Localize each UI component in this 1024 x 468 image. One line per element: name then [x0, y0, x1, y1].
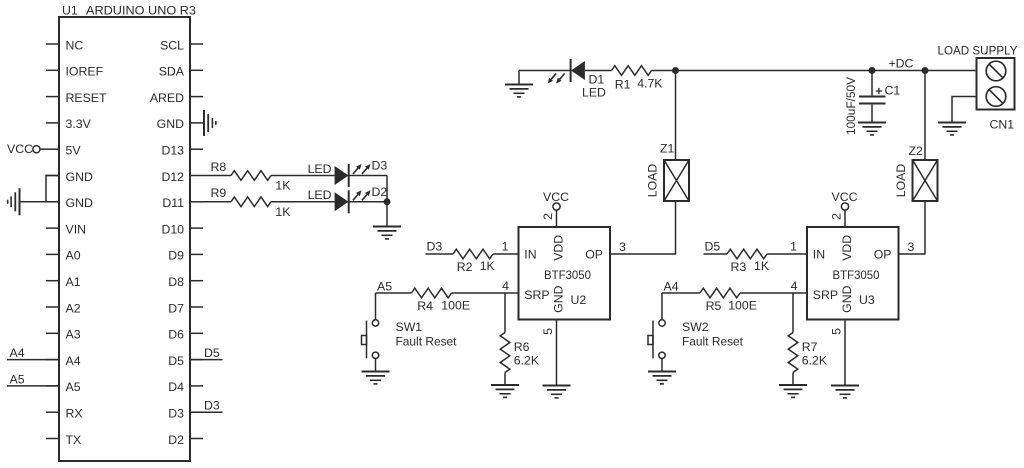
wire D3 to R2: [426, 253, 454, 255]
U1 left pin stub A1: [46, 280, 59, 282]
svg-text:D3: D3: [204, 399, 220, 413]
U1 right pin stub ARED: [190, 96, 203, 98]
svg-text:D2: D2: [372, 185, 388, 199]
svg-text:A2: A2: [66, 301, 81, 315]
U1 left pin stub NC: [46, 43, 59, 45]
svg-text:D1: D1: [589, 73, 605, 87]
U1 right pin stub D13: [190, 148, 203, 150]
svg-text:GND: GND: [157, 117, 184, 131]
resistor R8: [231, 171, 271, 181]
svg-text:BTF3050: BTF3050: [833, 268, 880, 282]
U1 left pin stub VIN: [46, 227, 59, 229]
svg-text:2: 2: [541, 213, 555, 220]
load Z2 box: [913, 160, 938, 201]
U1 right pin stub D8: [190, 280, 203, 282]
svg-text:1K: 1K: [754, 259, 770, 273]
svg-text:LOAD SUPPLY: LOAD SUPPLY: [938, 44, 1018, 58]
wire R1 to +DC rail: [652, 70, 977, 72]
wire R6 to ground: [504, 373, 506, 386]
svg-text:C1: C1: [885, 84, 901, 98]
resistor R5: [700, 288, 740, 298]
svg-text:R1: R1: [615, 77, 631, 91]
op-amp U3 BTF3050 body: [807, 227, 899, 320]
svg-text:Fault Reset: Fault Reset: [682, 335, 744, 349]
svg-text:IN: IN: [813, 247, 825, 261]
svg-text:D11: D11: [162, 196, 184, 210]
ground under CN1: [938, 123, 966, 135]
U1 right pin stub D5: [190, 359, 203, 361]
svg-text:SDA: SDA: [159, 65, 185, 79]
svg-text:NC: NC: [66, 38, 84, 52]
svg-text:R4: R4: [417, 299, 433, 313]
resistor R4: [412, 288, 452, 298]
svg-text:A4: A4: [664, 279, 679, 293]
load Z1 box: [664, 160, 689, 201]
svg-text:100uF/50V: 100uF/50V: [844, 76, 858, 135]
junction dot Z2 tap: [922, 67, 929, 74]
U1 right pin stub D6: [190, 332, 203, 334]
wire A4 to R5: [662, 292, 700, 294]
svg-text:R2: R2: [457, 260, 473, 274]
svg-text:SRP: SRP: [524, 288, 549, 302]
wire R9 to D2: [271, 201, 335, 203]
wire D3 cathode: [349, 175, 387, 177]
svg-text:D8: D8: [168, 275, 184, 289]
svg-text:4: 4: [502, 279, 509, 293]
U1 right pin stub D9: [190, 253, 203, 255]
wire SW2 to ground: [661, 359, 663, 372]
U3 pin 2 VDD stub: [844, 210, 846, 227]
svg-text:3.3V: 3.3V: [66, 117, 92, 131]
svg-text:3: 3: [619, 240, 626, 254]
svg-text:OP: OP: [874, 247, 892, 261]
svg-text:A1: A1: [66, 275, 81, 289]
U2 pin 5 GND wire: [556, 320, 558, 386]
junction dot Z1 tap: [672, 67, 679, 74]
U1 right pin stub D12: [190, 175, 203, 177]
svg-text:VDD: VDD: [551, 235, 565, 261]
capacitor C1 plates: [859, 97, 886, 104]
svg-text:VCC: VCC: [543, 190, 569, 204]
svg-text:D12: D12: [161, 170, 184, 184]
svg-text:R5: R5: [706, 299, 722, 313]
svg-text:D5: D5: [204, 346, 220, 360]
U1 left pin stub RX: [46, 411, 59, 413]
svg-text:SCL: SCL: [160, 38, 184, 52]
svg-text:1: 1: [790, 240, 797, 254]
svg-text:D2: D2: [168, 433, 184, 447]
U3 VCC open circle: [841, 203, 848, 210]
svg-text:ARED: ARED: [150, 91, 184, 105]
svg-text:D7: D7: [168, 301, 184, 315]
wire R4 to U2 SRP: [452, 292, 519, 294]
resistor R2: [453, 249, 493, 259]
svg-text:D3: D3: [168, 407, 184, 421]
wire D5 to R3: [704, 253, 728, 255]
LED D1: [548, 59, 585, 84]
wire R7 to ground: [792, 373, 794, 386]
wire SRP down to R6: [504, 293, 506, 333]
wire R5 to U3 SRP: [740, 292, 807, 294]
ground under U2 pin 5: [543, 386, 571, 398]
ground under SW1: [362, 372, 390, 384]
U1 left pin stub A3: [46, 332, 59, 334]
wire to D1: [519, 70, 571, 72]
wire Z2 to U3 OP: [899, 201, 926, 254]
svg-text:R6: R6: [514, 340, 530, 354]
svg-text:A5: A5: [66, 380, 81, 394]
ground at D1 anode: [505, 85, 533, 97]
ground right of U1 GND: [204, 110, 216, 136]
svg-text:D13: D13: [161, 144, 184, 158]
wire A5 to R4: [376, 292, 412, 294]
svg-text:3: 3: [908, 240, 915, 254]
svg-text:GND: GND: [66, 170, 93, 184]
svg-text:D6: D6: [168, 328, 184, 342]
svg-text:100E: 100E: [728, 298, 757, 312]
op-amp U1 Arduino UNO R3 body: [59, 17, 190, 461]
svg-text:A3: A3: [66, 328, 81, 342]
svg-text:D3: D3: [427, 240, 443, 254]
U1 left pin stub A4: [46, 359, 59, 361]
wire A4 down to SW2: [661, 293, 663, 320]
svg-text:VCC: VCC: [832, 190, 858, 204]
U1 left pin stub RESET: [46, 96, 59, 98]
svg-text:4.7K: 4.7K: [637, 76, 663, 90]
ground left of U1: [8, 188, 20, 215]
wire +DC down to Z1: [675, 71, 677, 161]
svg-text:6.2K: 6.2K: [802, 353, 828, 367]
resistor R7: [788, 333, 798, 373]
svg-text:4: 4: [791, 279, 798, 293]
svg-text:GND: GND: [551, 285, 565, 312]
wire Z1 to U2 OP: [610, 201, 676, 254]
svg-text:2: 2: [830, 213, 844, 220]
svg-text:CN1: CN1: [990, 117, 1015, 131]
op-amp U2 BTF3050 body: [519, 227, 611, 320]
svg-text:Z1: Z1: [660, 142, 675, 156]
svg-text:LED: LED: [308, 188, 332, 202]
svg-text:Z2: Z2: [909, 144, 924, 158]
wire R8 to D3: [271, 175, 335, 177]
wire SRP down to R7: [792, 293, 794, 333]
U1 right pin stub D11: [190, 201, 203, 203]
svg-text:U1: U1: [62, 4, 78, 18]
svg-text:LED: LED: [582, 86, 606, 100]
svg-text:SW2: SW2: [682, 320, 709, 334]
wire C1 to ground: [871, 104, 873, 123]
U2 pin 2 VDD stub: [556, 210, 558, 227]
node A4 wire: [7, 359, 59, 361]
LED D3: [335, 164, 371, 187]
wire GND1 to corner: [46, 176, 59, 202]
svg-text:BTF3050: BTF3050: [544, 268, 591, 282]
svg-text:R7: R7: [802, 340, 818, 354]
U1 right pin stub D2: [190, 438, 203, 440]
wire CN1 pin2 to ground: [952, 97, 977, 123]
svg-text:IN: IN: [524, 247, 536, 261]
wire VCC to 5V: [40, 148, 46, 150]
U1 left pin stub 3.3V: [46, 122, 59, 124]
svg-text:R9: R9: [211, 186, 227, 200]
svg-text:TX: TX: [66, 433, 82, 447]
svg-text:D9: D9: [168, 249, 184, 263]
U1 right pin stub SDA: [190, 69, 203, 71]
svg-text:SW1: SW1: [396, 320, 423, 334]
wire GND2 to ground: [20, 201, 60, 203]
label C1 plus: [876, 88, 882, 94]
svg-text:GND: GND: [66, 196, 93, 210]
node D3 stub wire: [190, 411, 223, 413]
svg-text:100E: 100E: [441, 298, 470, 312]
svg-text:R3: R3: [731, 260, 747, 274]
ground under SW2: [648, 372, 676, 384]
svg-text:ARDUINO UNO R3: ARDUINO UNO R3: [86, 4, 196, 18]
svg-text:5: 5: [830, 328, 844, 335]
svg-text:1K: 1K: [275, 179, 291, 193]
junction dot D2 cathode: [384, 198, 391, 205]
U3 pin 5 GND wire: [844, 320, 846, 386]
svg-text:5V: 5V: [66, 144, 82, 158]
wire GND pin6 left: [45, 175, 47, 177]
CN1 screw terminal 2: [986, 87, 1006, 107]
U1 left pin stub A2: [46, 306, 59, 308]
svg-text:U3: U3: [859, 293, 875, 307]
svg-text:1K: 1K: [480, 259, 496, 273]
resistor R6: [500, 333, 510, 373]
ground under LEDs: [373, 227, 401, 239]
CN1 screw terminal 1: [986, 61, 1006, 81]
VCC open terminal circle: [33, 146, 40, 153]
svg-text:LOAD: LOAD: [894, 164, 908, 198]
svg-text:D4: D4: [168, 380, 184, 394]
svg-text:A5: A5: [377, 279, 392, 293]
svg-text:D5: D5: [168, 354, 184, 368]
svg-text:Fault Reset: Fault Reset: [396, 335, 458, 349]
switch SW1 pushbutton: [362, 320, 379, 359]
U1 right pin stub SCL: [190, 43, 203, 45]
ground under U3 pin 5: [831, 386, 859, 398]
svg-text:+DC: +DC: [889, 56, 914, 70]
svg-text:5: 5: [541, 328, 555, 335]
wire D11 to R9: [203, 201, 231, 203]
svg-text:1: 1: [502, 240, 509, 254]
svg-text:D5: D5: [705, 240, 721, 254]
svg-text:RX: RX: [66, 407, 83, 421]
U1 right pin stub GND: [190, 122, 203, 124]
svg-text:6.2K: 6.2K: [514, 353, 540, 367]
switch SW2 pushbutton: [648, 320, 665, 359]
svg-text:VCC: VCC: [7, 142, 33, 156]
node D5 stub wire: [190, 359, 223, 361]
wire +DC down to Z2: [924, 71, 926, 161]
svg-text:1K: 1K: [275, 205, 291, 219]
wire D12 to R8: [203, 175, 231, 177]
U1 left pin stub A5: [46, 385, 59, 387]
resistor R9: [231, 197, 271, 207]
wire D3-D2 join vertical: [386, 176, 388, 227]
svg-text:GND: GND: [840, 285, 854, 312]
ground under R6: [491, 385, 519, 397]
svg-text:OP: OP: [585, 247, 603, 261]
U1 right pin stub D7: [190, 306, 203, 308]
svg-text:SRP: SRP: [813, 288, 838, 302]
node A5 wire: [7, 385, 59, 387]
wire GND right stub: [203, 122, 204, 124]
wire R2 to U2 IN: [493, 253, 519, 255]
svg-text:RESET: RESET: [66, 91, 107, 105]
wire A5 down to SW1: [375, 293, 377, 320]
svg-text:VDD: VDD: [840, 235, 854, 261]
svg-text:LED: LED: [308, 162, 332, 176]
U1 left pin stub A0: [46, 253, 59, 255]
U1 left pin stub GND: [46, 175, 59, 177]
svg-text:A4: A4: [66, 354, 81, 368]
svg-text:R8: R8: [211, 160, 227, 174]
junction dot C1 tap: [869, 67, 876, 74]
U2 VCC open circle: [553, 203, 560, 210]
wire D2 cathode: [349, 201, 387, 203]
ground under C1: [858, 123, 886, 135]
svg-text:A5: A5: [10, 372, 25, 386]
wire +DC down to C1: [871, 71, 873, 97]
LED D2: [335, 190, 371, 213]
svg-text:VIN: VIN: [66, 222, 87, 236]
svg-text:LOAD: LOAD: [646, 164, 660, 198]
svg-text:A4: A4: [10, 346, 25, 360]
U1 right pin stub D4: [190, 385, 203, 387]
U1 left pin stub TX: [46, 438, 59, 440]
svg-text:A0: A0: [66, 249, 81, 263]
wire SW1 to ground: [375, 359, 377, 372]
svg-text:U2: U2: [571, 293, 587, 307]
connector CN1 body: [977, 58, 1015, 110]
svg-text:D10: D10: [161, 222, 184, 236]
U1 right pin stub D3: [190, 411, 203, 413]
resistor R1: [612, 66, 652, 76]
U1 left pin stub IOREF: [46, 69, 59, 71]
ground under R7: [779, 385, 807, 397]
U1 left pin stub 5V: [46, 148, 59, 150]
svg-text:D3: D3: [372, 159, 388, 173]
resistor R3: [727, 249, 767, 259]
svg-text:IOREF: IOREF: [66, 65, 104, 79]
wire ground up to D1 line: [518, 71, 520, 85]
U1 left pin stub GND: [46, 201, 59, 203]
wire R3 to U3 IN: [767, 253, 807, 255]
U1 right pin stub D10: [190, 227, 203, 229]
wire D1 to R1: [585, 70, 612, 72]
